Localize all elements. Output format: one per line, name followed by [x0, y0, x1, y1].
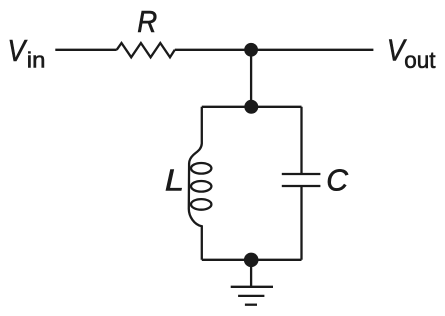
- wire resistor to Vout: [175, 49, 374, 51]
- wire tank top: [202, 106, 302, 108]
- svg-text:in: in: [27, 47, 46, 72]
- svg-text:R: R: [137, 6, 157, 40]
- wire top node down: [250, 50, 252, 107]
- node C (tank bottom junction): [244, 253, 259, 268]
- svg-text:L: L: [165, 164, 184, 198]
- ground: [231, 287, 273, 305]
- capacitor C: [282, 107, 321, 260]
- wire Vin to resistor: [55, 49, 116, 51]
- inductor L: [189, 107, 212, 260]
- resistor R: [117, 43, 175, 57]
- svg-text:C: C: [326, 165, 348, 198]
- wire bottom node to ground: [250, 260, 252, 287]
- wire tank bottom: [202, 259, 302, 261]
- svg-text:out: out: [404, 46, 436, 72]
- node A (top junction): [244, 43, 258, 57]
- node B (tank top junction): [244, 100, 258, 114]
- svg-text:V: V: [8, 34, 28, 68]
- label Vout: [387, 34, 436, 73]
- label Vin: [8, 34, 46, 72]
